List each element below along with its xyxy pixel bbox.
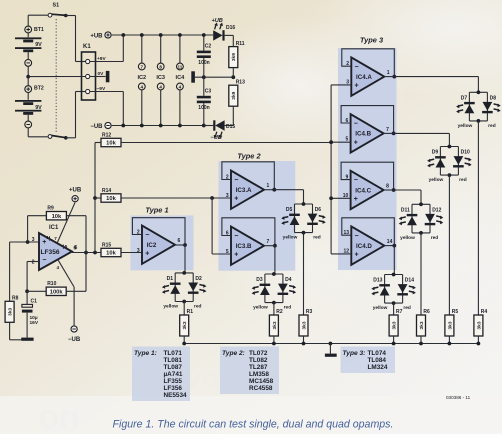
svg-text:+: + (145, 251, 149, 258)
wire 0V mid line (195, 76, 233, 78)
decorative: none (38, 362, 220, 436)
wire IC4.A +input (331, 84, 351, 86)
wire type2 bus (211, 198, 213, 254)
svg-text:D13: D13 (373, 278, 382, 284)
node (392, 132, 396, 136)
svg-text:D2: D2 (195, 276, 202, 282)
svg-text:TL084: TL084 (368, 357, 387, 364)
svg-text:IC3.B: IC3.B (236, 243, 252, 250)
svg-text:red: red (313, 235, 321, 241)
terminal -UB at IC1 (68, 326, 81, 343)
svg-text:7: 7 (386, 127, 389, 133)
svg-text:+UB: +UB (212, 18, 223, 24)
svg-text:NE5534: NE5534 (164, 392, 188, 399)
Type 1 group box (131, 216, 194, 271)
wire to LED pair (184, 245, 186, 273)
node battery midpoint 0V (26, 75, 30, 79)
resistor R10 100k (46, 281, 66, 295)
svg-text:3k3: 3k3 (272, 321, 278, 329)
svg-text:BT2: BT2 (34, 85, 44, 91)
node (302, 342, 306, 346)
node (392, 75, 396, 79)
svg-text:D11: D11 (401, 208, 410, 214)
svg-text:MC1458: MC1458 (249, 378, 274, 385)
svg-text:−: − (354, 121, 358, 128)
capacitor C2 100n (197, 43, 212, 66)
node (182, 342, 186, 346)
wire IC4.C output run (394, 189, 421, 191)
svg-text:yellow: yellow (283, 235, 298, 241)
ground symbol bottom (329, 344, 331, 354)
wire IC4.B output run (394, 132, 450, 134)
svg-text:yellow: yellow (400, 235, 415, 241)
switch S1 mechanical link (dashed) (55, 19, 57, 133)
wire (28, 215, 47, 217)
svg-text:TL074: TL074 (368, 350, 387, 357)
svg-text:R13: R13 (236, 79, 245, 85)
svg-text:D5: D5 (286, 207, 293, 213)
resistor R2 3k3 (269, 309, 283, 336)
wire (303, 233, 305, 315)
svg-text:3: 3 (137, 248, 140, 254)
wire IC2 output (175, 244, 185, 246)
svg-text:R14: R14 (102, 188, 111, 194)
resistor R11 3k9 (229, 41, 245, 68)
wire (232, 106, 234, 125)
LED D3 (yellow) / LED D4 (red) pair (252, 272, 297, 311)
wire (66, 137, 76, 139)
wire IC4.D feedback loop (342, 218, 395, 246)
resistor R1 3k3 (180, 309, 194, 336)
svg-text:IC4.C: IC4.C (355, 187, 371, 194)
svg-text:TL087: TL087 (164, 364, 183, 371)
svg-text:8: 8 (159, 64, 162, 69)
node (93, 251, 97, 255)
svg-text:R7: R7 (396, 309, 403, 315)
svg-text:D7: D7 (461, 96, 468, 102)
wire (448, 175, 450, 315)
node (273, 244, 277, 248)
wire IC4.A feedback loop (342, 49, 395, 77)
svg-text:2: 2 (32, 259, 35, 265)
svg-text:Type 1:: Type 1: (134, 350, 157, 357)
wire IC4.C output (384, 189, 394, 191)
svg-text:R5: R5 (452, 309, 459, 315)
op-amp IC2 (137, 226, 181, 264)
svg-text:red: red (431, 235, 439, 241)
wire to LED pair (274, 246, 276, 274)
svg-text:IC4.B: IC4.B (355, 131, 371, 138)
node (392, 342, 396, 346)
svg-text:−: − (145, 232, 149, 239)
node (210, 196, 214, 200)
svg-text:−UB: −UB (211, 135, 222, 141)
svg-text:red: red (459, 177, 467, 183)
svg-text:red: red (403, 305, 411, 311)
wire (27, 128, 29, 137)
node (419, 342, 423, 346)
svg-text:10k: 10k (52, 214, 62, 220)
device list Type 1: (132, 347, 190, 402)
svg-text:6: 6 (74, 245, 77, 251)
svg-text:R9: R9 (47, 206, 54, 212)
op-amp IC3.B (226, 227, 270, 265)
svg-text:3k9: 3k9 (231, 53, 237, 61)
svg-text:7: 7 (267, 239, 270, 245)
op-amp IC4.D (343, 226, 392, 264)
terminal +UB at IC1 (69, 187, 82, 201)
svg-text:yellow: yellow (163, 304, 178, 310)
terminal +UB (90, 32, 111, 39)
svg-text:11: 11 (177, 64, 182, 69)
svg-text:LF356: LF356 (41, 249, 60, 256)
svg-text:IC2: IC2 (147, 242, 157, 249)
svg-text:−: − (355, 233, 359, 240)
wire (95, 142, 101, 144)
wire IC4.D +input (331, 253, 351, 255)
svg-text:4: 4 (159, 84, 162, 89)
wire IC3.B +input (212, 253, 231, 255)
wire IC4.A output (384, 76, 394, 78)
LED D9 (yellow) / LED D10 (red) pair (427, 145, 472, 184)
svg-text:no: no (38, 398, 80, 434)
svg-text:3k3: 3k3 (392, 321, 398, 329)
svg-text:−: − (234, 233, 238, 240)
wire output bus (94, 143, 96, 253)
svg-text:yellow: yellow (429, 177, 444, 183)
svg-text:D8: D8 (490, 96, 497, 102)
switch S1 pole a (28, 3, 67, 26)
svg-text:Type 2: Type 2 (237, 151, 261, 160)
wire +UB rail (112, 34, 214, 36)
capacitor C3 100n (197, 89, 212, 112)
wire (160, 35, 162, 63)
svg-text:1: 1 (387, 70, 390, 76)
wire IC4.C feedback loop (341, 162, 394, 190)
svg-text:µA741: µA741 (164, 371, 183, 378)
wire IC3.B output (264, 245, 275, 247)
power pins IC4 (176, 63, 186, 90)
power pins IC3 (156, 63, 165, 90)
svg-text:16V: 16V (30, 320, 39, 326)
wire IC3.A +input (212, 197, 231, 199)
connector K1 (82, 44, 107, 100)
svg-text:3k9: 3k9 (231, 91, 237, 99)
svg-text:yellow: yellow (458, 123, 473, 129)
wire (477, 121, 479, 315)
svg-text:LF356: LF356 (164, 385, 183, 392)
op-amp IC4.B (346, 114, 390, 152)
wire (393, 336, 395, 344)
svg-text:D1: D1 (167, 276, 174, 282)
resistor R8 3k3 (5, 296, 19, 323)
LED D11 (yellow) / LED D12 (red) pair (399, 202, 444, 240)
wire IC1 +input (pin 3) (10, 241, 39, 243)
wire (66, 15, 76, 17)
wire bottom 0V rail (184, 343, 478, 345)
svg-text:D10: D10 (461, 150, 470, 156)
svg-text:3k3: 3k3 (7, 307, 13, 315)
svg-text:IC1: IC1 (49, 225, 59, 231)
svg-text:3k3: 3k3 (447, 321, 453, 329)
svg-text:TL081: TL081 (164, 357, 183, 364)
svg-text:D9: D9 (432, 150, 439, 156)
svg-text:LF355: LF355 (164, 378, 183, 385)
wire (141, 35, 143, 63)
battery BT1 9V (15, 26, 44, 66)
power pins IC2 (137, 63, 146, 90)
svg-text:3k3: 3k3 (419, 321, 425, 329)
svg-text:1: 1 (46, 235, 49, 240)
0V bar mid (191, 71, 195, 82)
resistor R3 3k3 (299, 309, 313, 336)
node (183, 243, 187, 247)
svg-text:LM358: LM358 (249, 371, 269, 378)
svg-text:R11: R11 (236, 41, 245, 47)
svg-text:3k3: 3k3 (182, 321, 188, 329)
svg-text:Type 3:: Type 3: (343, 350, 366, 357)
node (477, 342, 481, 346)
node (272, 188, 276, 192)
svg-text:−UB: −UB (68, 337, 81, 343)
svg-text:+: + (355, 82, 359, 89)
svg-text:3k3: 3k3 (476, 321, 482, 329)
wire (204, 125, 213, 127)
wire (27, 66, 29, 76)
svg-text:BT1: BT1 (34, 27, 44, 33)
switch S1 pole b (48, 135, 68, 140)
svg-text:5: 5 (65, 244, 68, 249)
resistor R14 10k (101, 188, 121, 202)
wire pin7 to +UB (57, 202, 75, 243)
svg-text:R12: R12 (102, 132, 111, 138)
wire IC4.D output run (393, 246, 395, 275)
wire (28, 76, 85, 78)
wire (121, 252, 142, 254)
svg-text:TL071: TL071 (164, 350, 183, 357)
svg-text:D15: D15 (226, 124, 235, 130)
wire IC4.A output run (394, 76, 478, 78)
svg-text:5: 5 (346, 136, 349, 142)
resistor R13 3k9 (229, 79, 245, 106)
svg-text:IC4: IC4 (176, 75, 186, 81)
LED D16 (+UB indicator) (212, 18, 236, 41)
op-amp IC4.A (346, 57, 390, 95)
wire (448, 336, 450, 344)
resistor R15 10k (101, 242, 121, 256)
node (26, 240, 30, 244)
wire IC3.B feedback loop (222, 218, 275, 246)
resistor R5 3k3 (445, 309, 459, 336)
svg-text:D3: D3 (256, 277, 263, 283)
svg-text:D4: D4 (285, 277, 292, 283)
svg-text:D12: D12 (432, 208, 441, 214)
wire (203, 77, 205, 96)
svg-text:+: + (234, 252, 238, 259)
node (84, 251, 88, 255)
svg-text:+: + (354, 196, 358, 203)
wire (303, 336, 305, 344)
svg-text:C1: C1 (31, 299, 38, 305)
LED D15 (-UB indicator) (211, 120, 236, 141)
node (121, 33, 125, 37)
svg-text:IC3.A: IC3.A (236, 187, 252, 194)
svg-text:+UB: +UB (69, 187, 82, 193)
ground (21, 338, 33, 341)
svg-text:TL082: TL082 (249, 357, 268, 364)
wire IC1 output (72, 252, 101, 254)
svg-text:−: − (234, 177, 238, 184)
node (272, 342, 276, 346)
wire (420, 336, 422, 344)
wire -UB rail (112, 125, 214, 127)
wire IC3.A output (264, 189, 274, 191)
wire IC2 feedback loop (132, 218, 185, 245)
wire IC1 -input (pin 2) (27, 261, 39, 263)
wire (9, 242, 11, 301)
node (121, 124, 125, 128)
resistor R4 3k3 (474, 309, 488, 336)
svg-text:LM324: LM324 (368, 364, 388, 371)
LED D13 (yellow) / LED D14 (red) pair (371, 273, 416, 312)
LED D1 (yellow) / LED D2 (red) pair (162, 271, 207, 310)
wire (273, 336, 275, 344)
svg-text:−UB: −UB (90, 124, 103, 130)
wire (232, 68, 234, 78)
LED D5 (yellow) / LED D6 (red) pair (281, 202, 326, 241)
svg-text:R6: R6 (423, 309, 430, 315)
svg-text:−: − (42, 257, 46, 264)
battery BT2 9V (15, 77, 44, 128)
svg-text:D14: D14 (405, 278, 414, 284)
svg-text:7: 7 (141, 64, 144, 69)
svg-text:R3: R3 (306, 309, 313, 315)
node (25, 289, 29, 293)
svg-text:IC4.A: IC4.A (356, 74, 372, 81)
svg-text:red: red (194, 304, 202, 310)
svg-text:R1: R1 (187, 309, 194, 315)
svg-text:K1: K1 (83, 44, 91, 50)
resistor R6 3k3 (417, 309, 431, 336)
node (392, 188, 396, 192)
svg-text:D16: D16 (226, 25, 235, 31)
op-amp IC4.C (343, 171, 389, 209)
svg-text:Type 1: Type 1 (145, 205, 168, 214)
svg-text:1: 1 (267, 183, 270, 189)
wire (225, 34, 234, 36)
wire IC4.B feedback loop (341, 106, 394, 134)
svg-text:10k: 10k (106, 196, 116, 202)
wire (274, 189, 303, 191)
svg-text:TL287: TL287 (249, 364, 268, 371)
wire (477, 336, 479, 344)
svg-text:D6: D6 (315, 207, 322, 213)
svg-text:4: 4 (179, 84, 182, 89)
device list Type 2: (220, 347, 279, 395)
wire (203, 35, 205, 51)
svg-text:R2: R2 (276, 309, 283, 315)
resistor R9 10k (46, 206, 66, 220)
capacitor C1 10u 16V (22, 291, 39, 337)
terminal −UB (90, 122, 111, 129)
svg-text:IC4.D: IC4.D (356, 243, 372, 250)
wire pin4 to -UB (58, 260, 74, 287)
wire (183, 336, 185, 344)
svg-text:10k: 10k (106, 141, 116, 147)
svg-text:C3: C3 (205, 89, 212, 95)
wire IC4.C +input (331, 197, 351, 199)
wire (27, 290, 46, 292)
svg-text:TL072: TL072 (249, 350, 268, 357)
svg-text:Figure 1. The circuit can test: Figure 1. The circuit can test single, d… (113, 419, 394, 431)
svg-text:−: − (355, 64, 359, 71)
svg-text:10k: 10k (106, 251, 116, 257)
LED D7 (yellow) / LED D8 (red) pair (456, 90, 501, 128)
wire (393, 303, 395, 315)
svg-text:7: 7 (54, 236, 57, 241)
svg-text:4: 4 (141, 84, 144, 89)
svg-text:yellow: yellow (253, 305, 268, 311)
node (392, 244, 396, 248)
wire (95, 197, 101, 199)
resistor R12 10k (101, 132, 121, 146)
svg-text:Type 2:: Type 2: (222, 350, 245, 357)
node (448, 342, 452, 346)
svg-text:yellow: yellow (373, 305, 388, 311)
device list Type 3: (341, 347, 396, 374)
wire IC3.A feedback loop (222, 162, 274, 190)
svg-text:S1: S1 (53, 3, 60, 9)
wire (179, 35, 181, 63)
svg-text:3k3: 3k3 (301, 321, 307, 329)
svg-text:6: 6 (178, 238, 181, 244)
svg-text:R4: R4 (481, 309, 488, 315)
wire IC4.B output (384, 132, 394, 134)
svg-text:100k: 100k (50, 290, 64, 296)
Type 3 group box (338, 48, 397, 270)
svg-text:IC2: IC2 (137, 75, 146, 81)
node (329, 342, 333, 346)
wire (420, 233, 422, 315)
op-amp IC1 (39, 233, 78, 270)
wire (183, 302, 185, 316)
svg-text:red: red (284, 305, 292, 311)
wire IC4.B +input / R12 feed (331, 141, 351, 143)
svg-text:C2: C2 (205, 43, 212, 49)
svg-text:R8: R8 (12, 296, 19, 302)
wire IC4.D output (384, 245, 394, 247)
svg-text:+: + (234, 196, 238, 203)
wire (273, 303, 275, 315)
0V chassis bar at K1 (106, 71, 110, 82)
svg-text:8: 8 (386, 184, 389, 190)
op-amp IC3.A (226, 171, 270, 209)
svg-text:red: red (488, 123, 496, 129)
svg-text:RC4558: RC4558 (249, 385, 273, 392)
resistor R7 3k3 (389, 309, 403, 336)
svg-text:−: − (354, 177, 358, 184)
node (93, 196, 97, 200)
svg-text:R10: R10 (47, 281, 56, 287)
svg-text:+: + (354, 139, 358, 146)
svg-text:030386 - 11: 030386 - 11 (446, 395, 471, 400)
svg-text:IC3: IC3 (156, 75, 165, 81)
svg-text:+: + (355, 251, 359, 258)
svg-text:14: 14 (387, 239, 393, 245)
svg-text:R15: R15 (102, 242, 111, 248)
Type 2 group box (219, 161, 296, 271)
wire type3 bus (330, 85, 332, 254)
